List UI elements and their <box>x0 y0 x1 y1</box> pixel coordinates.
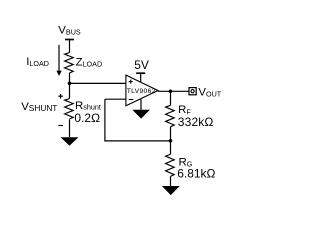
op-amp minus input mark <box>129 99 134 101</box>
resistor Z_LOAD <box>65 53 74 74</box>
resistor R_shunt <box>65 99 74 120</box>
wire 5V to op-amp top <box>140 73 142 82</box>
node output junction <box>169 90 173 94</box>
op-amp U1 TLV9062 triangle <box>126 75 158 106</box>
svg-text:TLV9062: TLV9062 <box>127 88 156 95</box>
wire op-amp V- pin to ground <box>140 99 142 110</box>
ground (right) <box>162 186 180 195</box>
wire R_F to feedback junction <box>170 127 172 155</box>
minus sign at R_shunt bottom <box>58 125 63 127</box>
current arrow I_LOAD <box>56 45 61 76</box>
port symbol V_OUT <box>189 88 196 95</box>
svg-text:0.2Ω: 0.2Ω <box>74 111 100 125</box>
svg-text:5V: 5V <box>134 58 149 72</box>
wire R_G to ground <box>170 176 172 186</box>
wire op-amp output <box>158 90 189 92</box>
node junction at +input tap <box>68 82 72 86</box>
svg-text:6.81kΩ: 6.81kΩ <box>177 167 215 181</box>
resistor R_F <box>166 105 175 127</box>
wire R_shunt to ground <box>69 120 71 138</box>
node feedback junction <box>169 139 173 143</box>
power rail V_BUS bar <box>65 39 74 41</box>
ground (op-amp) <box>132 110 150 119</box>
power rail 5V bar <box>136 72 145 74</box>
plus sign at R_shunt top <box>58 94 62 98</box>
svg-text:VSHUNT: VSHUNT <box>21 101 57 113</box>
ground (left) <box>61 137 79 146</box>
wire V_BUS bar to Z_LOAD <box>69 40 71 53</box>
wire feedback to op-amp -input <box>105 98 126 100</box>
wire output junction to R_F <box>170 91 172 105</box>
wire Z_LOAD to R_shunt <box>69 73 71 99</box>
wire junction to op-amp +input <box>70 82 126 84</box>
wire feedback horizontal to left <box>105 140 171 142</box>
svg-text:332kΩ: 332kΩ <box>178 115 214 129</box>
wire feedback vertical <box>104 99 106 141</box>
op-amp plus input mark <box>129 80 133 84</box>
resistor R_G <box>166 154 175 176</box>
